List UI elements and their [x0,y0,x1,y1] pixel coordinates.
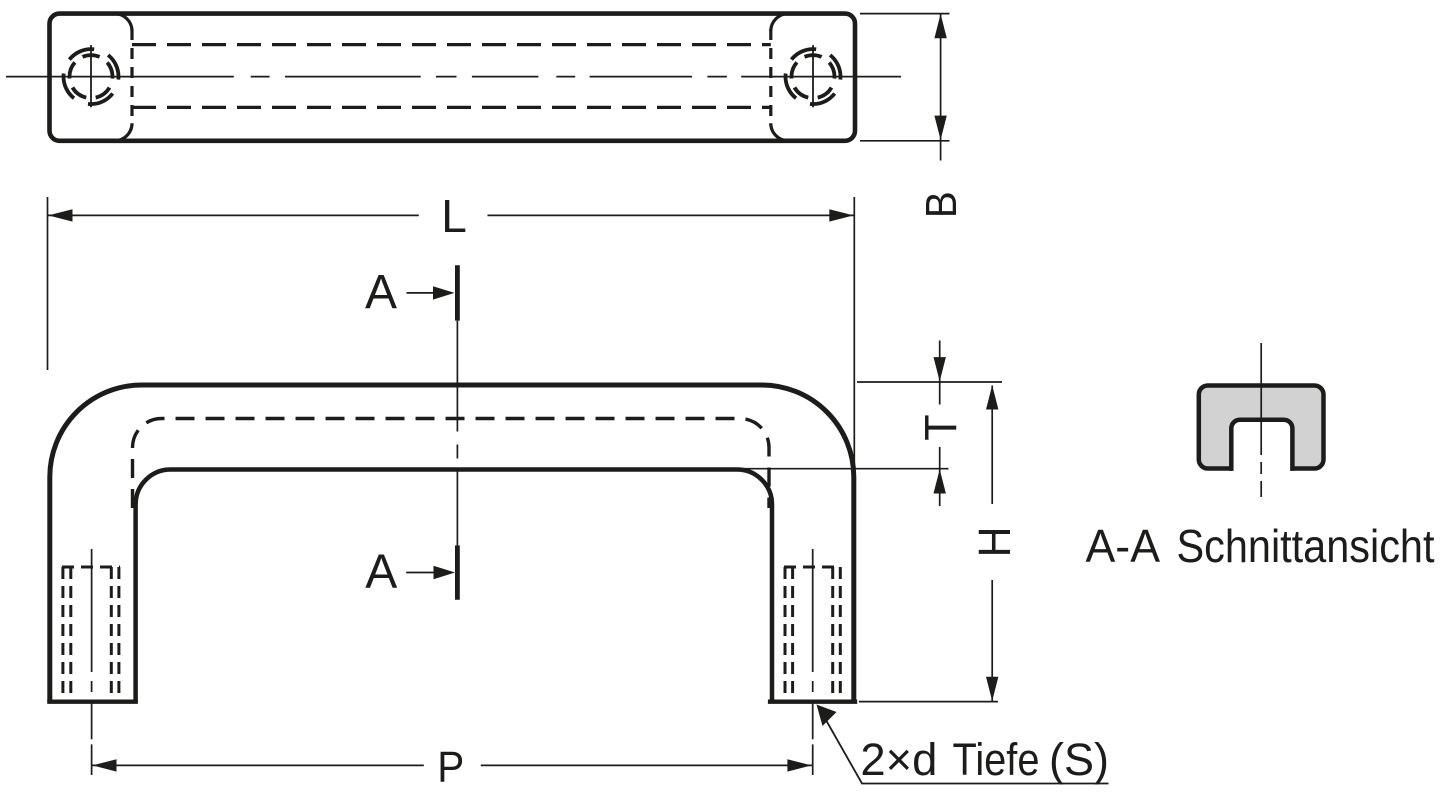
section marker A lower: arrowhead [434,566,456,579]
top view: hidden edge lower dashed line [132,106,771,109]
svg-text:T: T [917,414,967,440]
front view: right leg bottom edge [768,700,857,704]
dimension P: dimension line right segment [481,764,812,766]
svg-text:A: A [365,266,397,319]
top view: left hole vertical centre mark [90,45,92,107]
dimension H: upper dimension line [991,386,993,505]
dimension H: upper arrowhead pointing up [986,385,998,409]
top view: hidden edge upper dashed line [132,43,771,46]
dimension H: lower dimension line [991,580,993,701]
section marker A upper: arrow line [407,292,435,294]
dimension T: lower arrowhead pointing up [934,469,946,493]
dimension B: upper arrowhead [934,14,946,38]
right leg: core hole dashed lines [791,567,794,700]
dimension B: top extension line [860,13,950,15]
leader 2xd: diagonal line [818,706,1109,784]
top view: horizontal centre line [6,76,901,78]
section A-A: centre line [1260,343,1262,497]
svg-text:Schnittansicht: Schnittansicht [1177,520,1435,572]
right leg: thread hole dashed lines [784,567,787,700]
dimension T: top extension line [857,381,1002,383]
dimension T: upper dimension line [939,341,941,405]
top view: right tapped hole core circle [792,55,835,98]
svg-text:P: P [437,742,464,791]
dimension P: dimension line left segment [92,764,424,766]
svg-text:(S): (S) [1049,734,1109,785]
svg-text:A-A: A-A [1086,520,1161,572]
dimension L: dimension line right segment [488,214,855,216]
top view: handle bar outer body [50,14,856,141]
left leg: core hole dashed lines [69,567,72,700]
top view: right hole vertical centre mark [812,45,814,107]
svg-text:H: H [970,527,1020,558]
front view: outer contour of handle [50,385,854,703]
left leg: hole depth dashed line [62,566,120,569]
dimension B: lower arrowhead [934,116,946,140]
section A-A: slot erase patch [1234,460,1291,471]
right leg: hole depth dashed line [784,566,841,569]
front view: middle hidden contour dashed [133,419,770,509]
dimension L: dimension line left segment [48,214,419,216]
right leg: centre line [812,549,814,775]
dimension L: left extension line [47,197,49,370]
dimension B: dimension line [940,14,942,161]
dimension H: lower arrowhead pointing down [986,677,998,701]
dimension H: bottom extension line [859,701,998,703]
section marker A lower: arrow line [406,572,434,574]
top view: left end cap corner arcs [115,14,133,141]
section A-A: body with gray fill [1199,386,1324,469]
top view: left tapped hole thread circle [64,49,119,104]
dimension L: left arrowhead [48,209,72,221]
dimension L: right arrowhead [829,209,853,221]
section marker A upper: arrowhead [433,286,455,299]
dimension P: left arrowhead [93,759,117,771]
dimension T: lower dimension line [939,447,941,506]
dimension P: right arrowhead [787,759,811,771]
front view: left leg bottom edge [47,700,138,704]
svg-text:L: L [441,190,467,242]
svg-text:B: B [916,191,965,218]
left leg: thread hole dashed lines [61,567,64,700]
front view: inner contour of handle [136,470,772,704]
dimension L: right extension line [853,197,855,467]
leader 2xd: arrowhead [817,705,837,727]
left leg: centre line [91,549,93,775]
svg-text:Tiefe: Tiefe [953,734,1040,785]
section cut centre line [456,321,458,546]
top view: right end cap corner arcs [771,14,789,141]
top view: right end cap dashed edge [769,29,772,125]
section marker A lower: cut plane bar [455,545,460,599]
dimension B: bottom extension line [860,140,950,142]
svg-text:2×d: 2×d [860,734,937,785]
dimension T: upper arrowhead pointing down [934,357,946,381]
section A-A: slot cut-out [1231,420,1292,471]
section marker A upper: cut plane bar [455,265,460,320]
top view: right tapped hole thread circle [786,49,841,104]
top view: left end cap dashed edge [130,29,133,125]
dimension T: bottom extension line [743,468,949,470]
top view: left tapped hole core circle [70,55,113,98]
svg-text:A: A [365,545,397,598]
